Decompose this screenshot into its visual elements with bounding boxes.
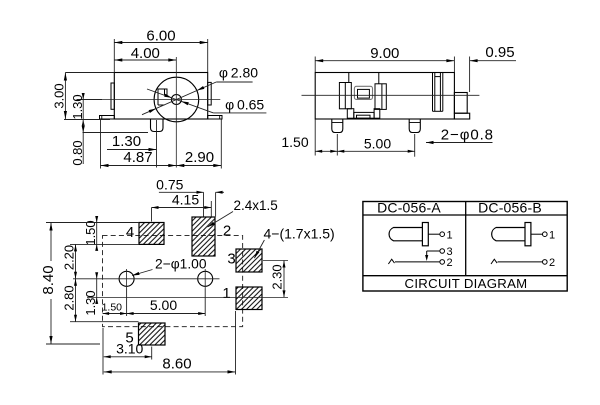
jack pin 1 — [531, 229, 555, 241]
front vertical centerline — [175, 57, 177, 168]
dimension 1.50 (leg offset) — [281, 120, 337, 156]
label 2-phi0.8 with leader — [426, 127, 494, 145]
dimension 0.80 — [70, 120, 148, 166]
front left tab — [111, 83, 114, 109]
svg-text:4.00: 4.00 — [131, 45, 160, 62]
dimension 0.95 — [470, 44, 516, 92]
svg-text:0.80: 0.80 — [70, 140, 85, 165]
svg-text:9.00: 9.00 — [370, 45, 399, 62]
svg-text:1.30: 1.30 — [70, 94, 85, 119]
side left leg — [332, 119, 343, 133]
svg-text:0.75: 0.75 — [156, 176, 183, 192]
dimension 1.50 pad4 height — [83, 216, 98, 251]
side internal shield slot — [433, 73, 443, 112]
circuit symbol DC-056-B — [491, 223, 555, 269]
jack symbol barrel — [389, 228, 422, 241]
svg-text:1.30: 1.30 — [112, 133, 141, 150]
hole circle left phi1.00 — [119, 269, 134, 289]
pad 5 — [139, 323, 166, 345]
label 2-phi1.00 with leader — [132, 257, 207, 276]
svg-text:0.95: 0.95 — [485, 44, 514, 61]
svg-text:2: 2 — [223, 223, 231, 240]
svg-text:5.00: 5.00 — [364, 136, 391, 152]
svg-text:2.20: 2.20 — [62, 245, 77, 270]
dimension 4.15 — [152, 191, 212, 221]
dimension 2.20 — [62, 244, 78, 278]
svg-text:1: 1 — [446, 229, 452, 241]
dimension 0.75 — [156, 176, 224, 216]
dimension 3.10 — [104, 341, 152, 360]
dimension 5.00 footprint — [127, 289, 206, 317]
front horizontal centerline — [77, 99, 221, 101]
footprint outline dashed — [103, 236, 243, 327]
hole circle right phi1.00 — [198, 269, 213, 289]
jack symbol contact bar — [525, 223, 531, 246]
svg-text:2.90: 2.90 — [185, 149, 214, 166]
dimension 2.80 — [62, 279, 78, 322]
side right leg — [409, 119, 420, 133]
svg-text:4−(1.7x1.5): 4−(1.7x1.5) — [264, 226, 335, 242]
dimension 8.40 — [40, 223, 139, 345]
svg-text:CIRCUIT DIAGRAM: CIRCUIT DIAGRAM — [405, 276, 528, 291]
front barrel circle phi2.80 — [154, 77, 199, 122]
dimension 4.00 — [114, 45, 176, 62]
svg-text:1.50: 1.50 — [83, 220, 98, 245]
side view body — [315, 73, 454, 120]
svg-text:5.00: 5.00 — [150, 297, 177, 313]
svg-text:2: 2 — [446, 257, 452, 269]
dimension 4.87 — [101, 120, 177, 169]
dimension 1.30 bottom (pin offset) — [107, 120, 157, 168]
pad 4 — [139, 223, 164, 245]
front inner notch — [158, 89, 167, 105]
dimension 3.00 — [52, 73, 115, 120]
svg-text:φ 2.80: φ 2.80 — [219, 65, 258, 81]
jack pin 2 with spring contact — [388, 257, 452, 269]
footprint horizontal centerline — [73, 278, 220, 280]
svg-text:1.50: 1.50 — [281, 134, 308, 150]
svg-text:4.87: 4.87 — [123, 149, 152, 166]
side horizontal centerline — [302, 94, 480, 96]
front center pin — [151, 119, 164, 132]
svg-text:1.30: 1.30 — [83, 290, 98, 315]
dimension 8.60 — [104, 311, 236, 375]
jack symbol barrel — [492, 228, 525, 241]
pad 2 — [192, 217, 215, 256]
pad 1 — [236, 287, 262, 310]
circuit symbol DC-056-A — [388, 223, 452, 269]
svg-text:4.15: 4.15 — [172, 191, 199, 207]
side internal right contact — [375, 73, 386, 110]
svg-text:1: 1 — [222, 285, 230, 302]
svg-text:DC-056-B: DC-056-B — [478, 200, 542, 216]
dimension 2.90 — [176, 120, 221, 169]
label 4-(1.7x1.5) with leader — [254, 226, 334, 259]
dimension 6.00 — [114, 28, 207, 73]
label phi 2.80 with leader — [142, 65, 258, 115]
svg-text:2.30: 2.30 — [270, 264, 285, 289]
svg-text:8.40: 8.40 — [40, 265, 57, 294]
svg-text:DC-056-A: DC-056-A — [377, 200, 441, 216]
svg-text:2−φ1.00: 2−φ1.00 — [155, 257, 207, 272]
pad3 center extension — [263, 260, 288, 262]
svg-text:3.00: 3.00 — [52, 83, 67, 108]
svg-text:4: 4 — [126, 224, 134, 241]
dimension 9.00 — [315, 45, 454, 72]
svg-text:φ 0.65: φ 0.65 — [225, 97, 264, 113]
label phi 0.65 with leader — [147, 89, 266, 113]
side right leg tick — [409, 122, 420, 124]
front center pin circle phi0.65 — [171, 95, 181, 105]
svg-text:2: 2 — [549, 257, 555, 269]
front right tab — [208, 82, 212, 105]
svg-text:1.50: 1.50 — [102, 302, 123, 314]
side internal base cluster — [347, 109, 380, 119]
dimension 1.30 left — [70, 93, 102, 126]
svg-text:6.00: 6.00 — [146, 28, 175, 45]
jack pin 1 — [428, 229, 452, 241]
svg-text:8.60: 8.60 — [162, 356, 191, 373]
front left foot — [100, 116, 115, 120]
dimension 1.50 small — [102, 302, 127, 375]
dimension 1.30 footprint — [83, 272, 98, 315]
jack pin 2 with spring contact — [491, 257, 555, 269]
side internal left contact — [339, 73, 351, 109]
svg-text:3.10: 3.10 — [116, 341, 143, 357]
side right block — [454, 93, 469, 120]
jack symbol contact bar — [422, 223, 428, 246]
table frame — [363, 202, 567, 292]
svg-text:2.80: 2.80 — [62, 285, 77, 310]
side internal center block — [354, 86, 372, 99]
jack pin 3 with switch arrow — [425, 246, 452, 261]
svg-text:1: 1 — [549, 229, 555, 241]
dimension 2.30 — [270, 261, 286, 298]
svg-text:3: 3 — [227, 251, 235, 268]
pad1 row centerline — [87, 296, 288, 298]
label 2.4x1.5 with leader — [208, 198, 278, 227]
pad 3 — [236, 249, 262, 272]
front right foot — [208, 116, 222, 120]
front view body — [114, 73, 207, 120]
svg-text:2−φ0.8: 2−φ0.8 — [441, 127, 494, 144]
dimension 5.00 (leg pitch) — [337, 134, 414, 157]
side left leg tick — [332, 122, 343, 124]
svg-text:2.4x1.5: 2.4x1.5 — [234, 198, 278, 213]
